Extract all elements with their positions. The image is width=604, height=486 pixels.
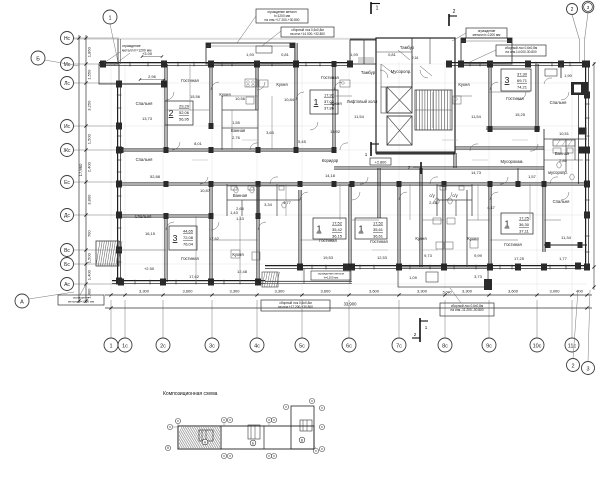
svg-text:4с: 4с	[254, 343, 260, 349]
svg-text:1,77: 1,77	[559, 256, 568, 261]
svg-text:17,92: 17,92	[324, 93, 335, 98]
svg-text:12,48: 12,48	[237, 269, 248, 274]
svg-text:3,73: 3,73	[474, 274, 483, 279]
svg-text:14,73: 14,73	[471, 170, 482, 175]
svg-text:44,65: 44,65	[183, 229, 194, 234]
svg-text:Гостиная: Гостиная	[319, 238, 337, 243]
svg-text:Спальня: Спальня	[553, 199, 570, 204]
svg-text:1: 1	[108, 15, 111, 21]
svg-text:15,56: 15,56	[190, 94, 201, 99]
svg-text:5с: 5с	[299, 343, 305, 349]
svg-text:Вс: Вс	[64, 248, 70, 254]
svg-text:с/у: с/у	[452, 193, 458, 198]
svg-text:13,92: 13,92	[330, 129, 341, 134]
svg-text:10,56: 10,56	[235, 96, 246, 101]
svg-text:33,900: 33,900	[344, 302, 357, 307]
svg-text:11,54: 11,54	[471, 114, 481, 119]
svg-text:Спальня: Спальня	[136, 157, 153, 162]
svg-text:0,81: 0,81	[281, 52, 290, 57]
svg-text:3,300: 3,300	[462, 289, 473, 294]
svg-text:металл h=1200 мм: металл h=1200 мм	[68, 300, 94, 304]
svg-text:1,400: 1,400	[87, 269, 92, 280]
svg-text:3с: 3с	[209, 343, 215, 349]
svg-text:Тамбур: Тамбур	[361, 70, 376, 75]
svg-text:Кухня: Кухня	[232, 252, 243, 257]
svg-text:Коридор: Коридор	[322, 158, 339, 163]
svg-text:на отм.+14.000-+32.800: на отм.+14.000-+32.800	[290, 32, 325, 36]
svg-text:17,62: 17,62	[189, 274, 200, 279]
svg-text:29,29: 29,29	[179, 104, 190, 109]
svg-text:Лс: Лс	[64, 81, 70, 87]
svg-text:2,43: 2,43	[429, 200, 438, 205]
svg-text:19,53: 19,53	[323, 255, 334, 260]
svg-text:Ес: Ес	[64, 180, 70, 186]
svg-text:1: 1	[376, 6, 379, 12]
svg-text:5,45: 5,45	[298, 139, 307, 144]
svg-text:Ванная: Ванная	[555, 151, 569, 156]
svg-text:15,25: 15,25	[515, 112, 526, 117]
svg-text:Мусорокам.: Мусорокам.	[500, 159, 523, 164]
svg-text:1,90: 1,90	[564, 73, 573, 78]
svg-text:1: 1	[314, 97, 319, 107]
svg-text:3: 3	[173, 233, 178, 243]
svg-text:3: 3	[586, 366, 589, 372]
svg-text:мусоропр.: мусоропр.	[548, 170, 568, 175]
svg-text:Б: Б	[36, 56, 40, 62]
svg-text:400: 400	[576, 289, 583, 294]
svg-text:13,73: 13,73	[142, 116, 153, 121]
svg-text:Ис: Ис	[64, 124, 71, 130]
svg-text:7с: 7с	[396, 343, 402, 349]
svg-text:Мс: Мс	[64, 62, 71, 68]
svg-text:Лифтовый холл: Лифтовый холл	[347, 99, 378, 104]
svg-text:37,30: 37,30	[517, 72, 528, 77]
svg-text:0,81: 0,81	[388, 52, 397, 57]
svg-text:2,80: 2,80	[559, 158, 568, 163]
svg-text:2,76: 2,76	[232, 135, 241, 140]
svg-text:1: 1	[317, 224, 322, 234]
svg-text:10,84: 10,84	[284, 97, 295, 102]
svg-text:1,93: 1,93	[246, 52, 255, 57]
svg-text:11с: 11с	[568, 343, 577, 349]
svg-text:1: 1	[359, 224, 364, 234]
svg-text:+2.50: +2.50	[144, 266, 155, 271]
svg-text:16,15: 16,15	[145, 231, 156, 236]
svg-text:35,61: 35,61	[373, 227, 384, 232]
svg-text:с/у: с/у	[429, 193, 435, 198]
svg-text:1,550: 1,550	[87, 69, 92, 80]
svg-text:Ас: Ас	[64, 282, 70, 288]
svg-text:37,11: 37,11	[519, 228, 529, 233]
svg-text:Кухня: Кухня	[276, 82, 287, 87]
svg-text:1,500: 1,500	[87, 252, 92, 263]
svg-text:9с: 9с	[486, 343, 492, 349]
svg-text:1: 1	[109, 343, 112, 349]
svg-text:11,34: 11,34	[561, 235, 571, 240]
svg-text:Б: Б	[252, 442, 254, 446]
svg-text:2: 2	[453, 9, 456, 15]
svg-text:9,99: 9,99	[474, 253, 483, 258]
svg-text:2: 2	[169, 108, 174, 118]
svg-text:8с: 8с	[442, 343, 448, 349]
svg-text:3,250: 3,250	[87, 100, 92, 111]
svg-text:5,040: 5,040	[443, 291, 452, 295]
svg-text:17,52: 17,52	[332, 221, 343, 226]
svg-text:3,800: 3,800	[87, 194, 92, 205]
svg-text:Гостиная: Гостиная	[370, 239, 388, 244]
svg-text:3,65: 3,65	[266, 130, 275, 135]
svg-text:h=1200 мм: h=1200 мм	[324, 276, 339, 280]
svg-text:3,300: 3,300	[139, 289, 150, 294]
svg-text:2,400: 2,400	[87, 161, 92, 172]
svg-text:1,09: 1,09	[409, 275, 418, 280]
svg-text:1,43: 1,43	[236, 216, 245, 221]
svg-text:1: 1	[365, 152, 368, 157]
svg-text:36,61: 36,61	[373, 233, 384, 238]
svg-text:69,71: 69,71	[517, 78, 528, 83]
svg-text:72,08: 72,08	[183, 235, 194, 240]
svg-text:3,300: 3,300	[417, 289, 428, 294]
svg-text:на отм.-11.200--30.800: на отм.-11.200--30.800	[450, 308, 483, 312]
svg-text:10,51: 10,51	[559, 131, 570, 136]
svg-text:Мусоропр.: Мусоропр.	[391, 69, 411, 74]
svg-text:1,93: 1,93	[350, 52, 359, 57]
svg-text:Кухня: Кухня	[415, 236, 426, 241]
svg-text:Бс: Бс	[64, 262, 70, 268]
svg-text:2: 2	[571, 363, 574, 369]
svg-text:1,500: 1,500	[87, 133, 92, 144]
svg-text:56,95: 56,95	[179, 116, 190, 121]
svg-text:+2.800: +2.800	[375, 161, 387, 165]
svg-text:Кухня: Кухня	[330, 101, 341, 106]
svg-text:2: 2	[414, 332, 417, 337]
svg-text:Гостиная: Гостиная	[504, 242, 522, 247]
svg-text:Гостиная: Гостиная	[506, 96, 524, 101]
svg-text:Ванная: Ванная	[231, 128, 245, 133]
svg-text:52,06: 52,06	[179, 110, 190, 115]
svg-text:3,300: 3,300	[229, 289, 240, 294]
svg-text:Дс: Дс	[64, 213, 70, 219]
svg-text:17,52: 17,52	[373, 221, 384, 226]
svg-text:3,000: 3,000	[549, 289, 560, 294]
svg-text:Жс: Жс	[63, 148, 71, 154]
svg-text:Кухня: Кухня	[467, 236, 478, 241]
svg-text:Спальня: Спальня	[135, 214, 152, 219]
svg-text:3,600: 3,600	[508, 289, 519, 294]
svg-text:17,25: 17,25	[514, 256, 525, 261]
svg-text:37,86: 37,86	[324, 105, 335, 110]
svg-text:11,54: 11,54	[354, 114, 364, 119]
svg-text:3,300: 3,300	[274, 289, 285, 294]
svg-text:Нс: Нс	[64, 36, 71, 42]
svg-text:4,77: 4,77	[283, 200, 292, 205]
svg-text:3,34: 3,34	[264, 202, 273, 207]
svg-text:Гостиная: Гостиная	[321, 75, 339, 80]
svg-text:4,47: 4,47	[487, 205, 496, 210]
svg-text:2,16: 2,16	[412, 56, 419, 60]
svg-text:3,600: 3,600	[320, 289, 331, 294]
svg-text:Тамбур: Тамбур	[400, 45, 415, 50]
svg-text:74,21: 74,21	[517, 84, 528, 89]
svg-text:17,960: 17,960	[78, 163, 83, 176]
svg-text:76,04: 76,04	[183, 241, 194, 246]
svg-text:ограждение: ограждение	[122, 44, 141, 48]
svg-text:12,53: 12,53	[377, 255, 388, 260]
svg-text:52,88: 52,88	[150, 174, 161, 179]
svg-text:В: В	[301, 439, 303, 443]
svg-text:1с: 1с	[122, 343, 128, 349]
svg-text:Ванная: Ванная	[233, 193, 247, 198]
svg-text:10с: 10с	[533, 343, 542, 349]
svg-text:6с: 6с	[346, 343, 352, 349]
svg-text:Спальня: Спальня	[136, 101, 153, 106]
svg-text:3,600: 3,600	[182, 289, 193, 294]
svg-text:36,30: 36,30	[519, 222, 530, 227]
svg-text:3,600: 3,600	[369, 289, 380, 294]
svg-text:2с: 2с	[160, 343, 166, 349]
svg-text:35,42: 35,42	[332, 227, 343, 232]
svg-text:Композиционная схема: Композиционная схема	[163, 391, 218, 397]
svg-text:А: А	[20, 299, 24, 305]
svg-text:металл h=1200 мм: металл h=1200 мм	[473, 33, 501, 37]
svg-text:8,01: 8,01	[194, 141, 203, 146]
svg-text:1,57: 1,57	[528, 174, 537, 179]
svg-text:на отм.14.000-30.800: на отм.14.000-30.800	[505, 50, 536, 54]
svg-text:1: 1	[505, 219, 510, 229]
svg-text:металл h=1200 мм: металл h=1200 мм	[122, 49, 152, 53]
svg-text:на отм.+17.200-+30.800: на отм.+17.200-+30.800	[265, 18, 300, 22]
svg-text:3: 3	[587, 5, 590, 10]
svg-text:Спальня: Спальня	[550, 100, 567, 105]
svg-text:17,25: 17,25	[519, 216, 530, 221]
svg-text:14,18: 14,18	[325, 173, 336, 178]
svg-text:10,87: 10,87	[200, 188, 211, 193]
svg-text:2,96: 2,96	[148, 74, 157, 79]
svg-text:1,860: 1,860	[87, 46, 92, 57]
svg-text:3: 3	[505, 75, 510, 85]
svg-text:2: 2	[571, 7, 574, 13]
svg-text:1,55: 1,55	[232, 120, 241, 125]
svg-text:1,43: 1,43	[230, 210, 239, 215]
svg-text:Кухня: Кухня	[458, 82, 469, 87]
svg-text:700: 700	[87, 230, 92, 237]
svg-text:9,73: 9,73	[424, 253, 433, 258]
svg-text:1: 1	[425, 325, 428, 330]
svg-text:на отм.+17.200-+30.800: на отм.+17.200-+30.800	[278, 305, 313, 309]
